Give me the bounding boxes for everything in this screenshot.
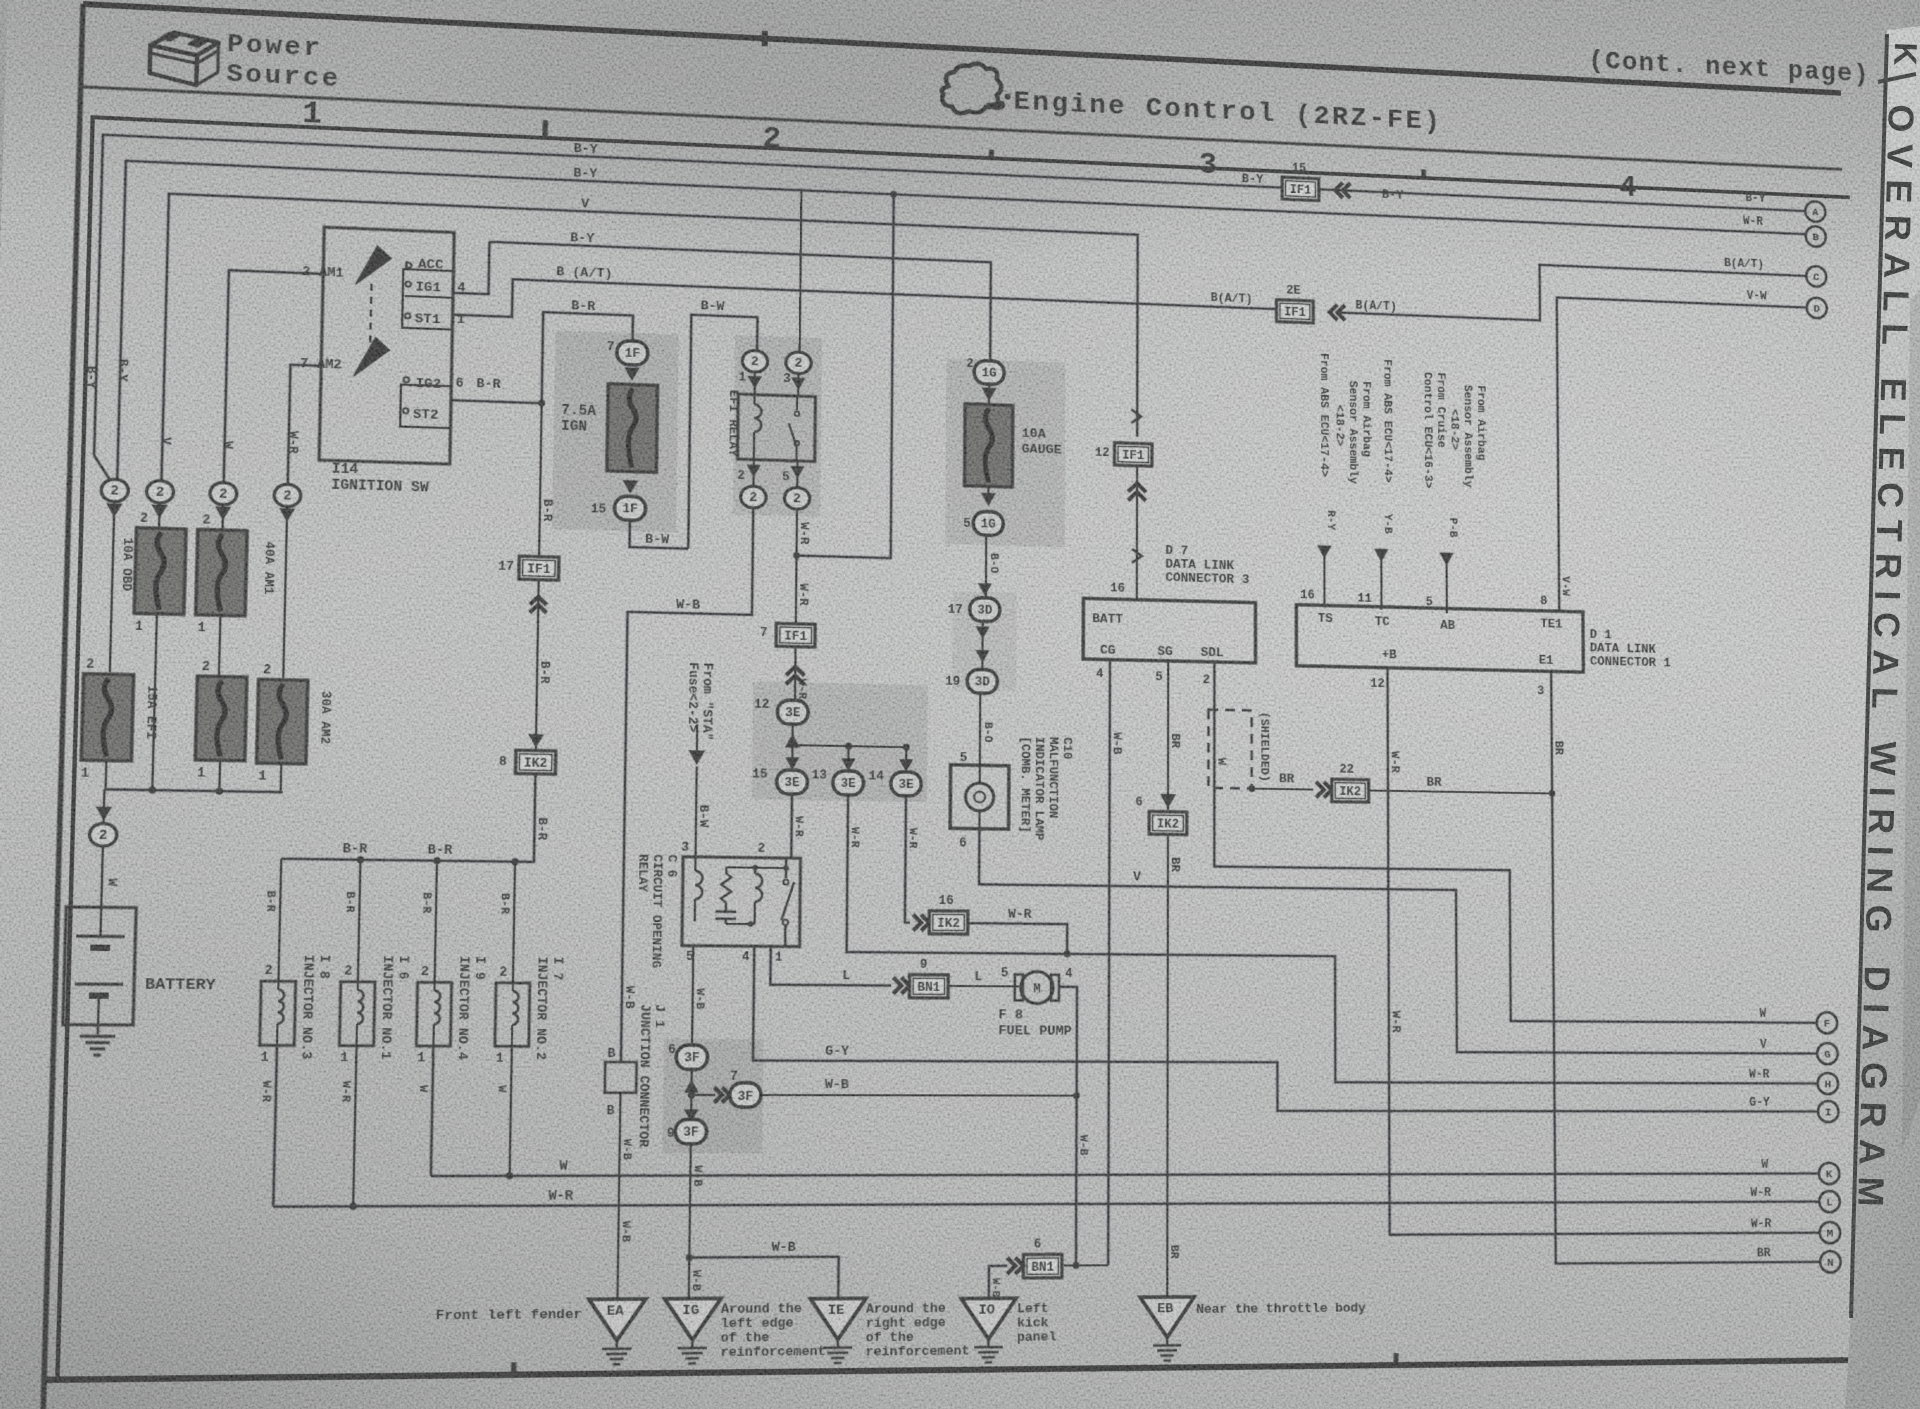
wire 3E15 to C6 pin2	[790, 794, 793, 858]
junction dot IG-IE branch	[686, 1254, 693, 1261]
3E bus	[792, 745, 908, 747]
arrow From STA down	[696, 724, 699, 754]
connector box 2E IF1	[1277, 300, 1314, 323]
connector circle 2 EFI pin5	[784, 487, 810, 509]
arrow fuse to 1G bottom	[987, 486, 989, 500]
connector oval 1F bottom	[614, 496, 645, 521]
circle A	[1805, 201, 1825, 222]
wire B-R from IG2	[451, 309, 633, 407]
chevrons below IF1-17	[536, 580, 539, 751]
fuse 40A AM1	[196, 529, 247, 616]
wire 3D19 to C10	[979, 693, 982, 765]
highlight panel EFI relay pins	[733, 335, 822, 517]
circle N	[1820, 1251, 1841, 1273]
chevron to 3F7	[691, 1094, 715, 1096]
photo shadow blotch top	[363, 0, 1232, 300]
connector box 6 IK2	[1149, 811, 1187, 834]
wire AB riser	[1445, 561, 1447, 613]
injector I 9 INJECTOR NO.4	[416, 982, 451, 1046]
wire I8 W-R down	[273, 1045, 277, 1206]
arrow into IK2-6	[1160, 794, 1176, 808]
connector oval 1G bottom	[973, 511, 1003, 535]
wire SDL W down and right	[1214, 662, 1816, 1023]
wire EFI pin3 riser to W-R line	[800, 190, 802, 351]
wire 1G to 3D17	[985, 535, 988, 598]
arrow below 3E12	[785, 734, 800, 748]
W-R bus to L	[273, 1202, 1819, 1207]
arrow to 3E13	[847, 746, 849, 769]
chevrons into BN1-6	[1007, 1258, 1023, 1274]
arrow pin1	[748, 376, 762, 389]
wire B-Y bus 2 / W-R line (to B)	[117, 161, 1810, 528]
wire B-Y gauge feed	[488, 242, 991, 360]
connector oval 3E 13	[833, 771, 864, 795]
connector box 7 IF1	[776, 623, 815, 647]
wire B-R to injector bus	[281, 770, 535, 862]
wire AM1 to ALT	[219, 615, 221, 676]
bottom border tick left	[511, 1362, 516, 1374]
ignition switch contact box IG1/ST1	[405, 261, 454, 298]
connector oval 3D 17	[970, 597, 1000, 621]
wire B(A/T) to C	[1336, 256, 1807, 330]
connector oval 3E 15	[777, 770, 808, 794]
junction dots injector bus	[357, 856, 364, 863]
junction dot W-B pump return	[1073, 1092, 1080, 1099]
arrow fuse to 1F bottom	[623, 480, 639, 494]
connector circle 2 EFI pin1	[742, 350, 768, 372]
wire EFI pin5 down to junction	[795, 510, 798, 555]
connector oval 1G top	[974, 360, 1004, 384]
wire B-W upper link	[688, 315, 757, 551]
connector oval 3D 19	[967, 669, 997, 693]
arrow below 3F6	[690, 1069, 693, 1131]
connector box 15 IF1	[1282, 177, 1319, 200]
wire TE1 riser to D	[1557, 297, 1811, 617]
fuse 7.5A IGN	[607, 384, 658, 473]
wire junction to IF1-7	[795, 556, 798, 624]
fuse 80A ALT	[195, 676, 247, 761]
contact point dots ACC IG1 ST1 IG2 ST2	[406, 263, 412, 268]
wire I7 W down	[510, 1046, 512, 1176]
MIL lamp symbol	[965, 783, 993, 811]
wire drop injector INJECTOR NO.3	[278, 859, 281, 982]
wire pump pin4 W-B down	[1058, 987, 1077, 1266]
wire CG W-B down to bus	[1108, 660, 1110, 1266]
wire I6 W-R down	[353, 1046, 356, 1207]
ignition switch I14 box	[319, 227, 454, 464]
ignition switch contact box IG2/ST2	[400, 385, 451, 429]
engine icon (Engine Control)	[942, 62, 1002, 115]
arrow above 3F9	[684, 1109, 699, 1122]
wire stub IG1 pin4 riser	[453, 240, 489, 294]
W bus to K	[431, 1173, 1819, 1176]
injector I 6 INJECTOR NO.1	[339, 982, 375, 1046]
wire C6 pin1 L to BN1-9	[770, 946, 891, 985]
highlight panel 7.5A IGN	[552, 330, 679, 532]
sidebar left border line	[1851, 34, 1887, 1318]
wire SG BR down	[1167, 661, 1169, 810]
page frame bottom border	[44, 1360, 1860, 1380]
circle M	[1820, 1222, 1841, 1243]
wire c2 to 10A OBD	[158, 503, 161, 528]
arrow to 3E15	[791, 745, 793, 768]
arrow AB	[1439, 552, 1453, 565]
chevrons into BN1-9	[893, 978, 909, 994]
right page-curl shadow	[1902, 290, 1920, 1150]
wire B(A/T) bus	[453, 277, 1277, 345]
C6 circuit opening relay box	[682, 857, 801, 947]
wire c4 to 30A AM2	[283, 507, 287, 678]
connector circle 2 EFI pin2	[740, 486, 766, 508]
fuse 15A EFI	[81, 674, 133, 761]
page frame top border	[83, 4, 1841, 93]
ground IE	[810, 1298, 866, 1339]
arrow pin2	[746, 465, 760, 478]
wire ALT down to battery bus	[218, 760, 221, 791]
connector circle 2 (c5 battery)	[89, 823, 117, 846]
arrow below circle	[215, 506, 231, 520]
arrow to battery circle	[95, 806, 112, 820]
junction dot bus-OBD	[149, 787, 157, 794]
arrow 1F to fuse	[624, 367, 640, 381]
wire TS riser	[1323, 554, 1325, 605]
connector box 22 IK2	[1332, 779, 1369, 802]
wire I9 W down	[431, 1046, 433, 1176]
highlight panel 3D pair	[952, 591, 1017, 691]
fuel pump motor	[1015, 974, 1023, 1000]
wire c1 to 15A EFI	[110, 502, 115, 673]
wire drop injector INJECTOR NO.2	[513, 862, 515, 983]
circle K	[1819, 1163, 1840, 1184]
D1 data link connector 1 box	[1296, 605, 1583, 672]
wire C6 pin5 W-B down to 3F6	[692, 946, 693, 1045]
C6 switch contact	[781, 858, 794, 947]
circle B	[1806, 226, 1826, 247]
wire 3E14 down to IK2-16	[905, 796, 911, 923]
connector circle 2 (c3)	[210, 482, 237, 505]
connector circle 2 (c2)	[146, 480, 173, 503]
junction dot W-R bus	[349, 1203, 356, 1210]
connector oval 3F 9	[675, 1119, 707, 1144]
wire AM2 down to battery bus	[280, 763, 283, 792]
header separator line	[81, 87, 1842, 170]
wire diagonal B-Y join into c1	[93, 455, 113, 484]
ground EB	[1140, 1297, 1194, 1338]
connector box 12 IF1	[1114, 443, 1151, 466]
arrow into 3D17	[978, 583, 992, 596]
fuse 10A OBD	[134, 528, 186, 615]
wire V bus (to IF1-12/D7 BATT)	[161, 194, 1137, 509]
connector oval 1F top	[617, 341, 648, 366]
connector circle 2 (c4)	[274, 484, 301, 507]
arrow below circle	[106, 503, 123, 517]
wire W to AM1	[224, 270, 324, 484]
wire C6 pin4 G-Y down	[752, 946, 1818, 1111]
arrow below circle	[151, 504, 168, 518]
connector box 17 IF1	[519, 556, 559, 580]
wire E1 BR down to N	[1551, 671, 1820, 1263]
chevrons IF1-2E	[1330, 305, 1345, 321]
shielded dashed box	[1208, 710, 1251, 789]
C10 MIL box	[950, 765, 1009, 829]
connector box 6 BN1	[1023, 1254, 1062, 1277]
battery ground symbol	[97, 1025, 100, 1034]
AM2 switch lever	[354, 337, 390, 377]
connector oval 3E 12	[777, 700, 808, 724]
chevrons below IF1-7	[794, 647, 797, 701]
EFI relay box	[737, 394, 815, 461]
wire 1F to B-W corner	[630, 520, 689, 548]
chevrons IF1-15	[1335, 182, 1350, 198]
highlight panel 3F cluster	[662, 1039, 763, 1153]
wire 3F7 W-B right to pump return	[761, 1094, 1077, 1097]
chevrons into IK2-22	[1316, 782, 1332, 798]
junction dot W-R merge	[1064, 951, 1071, 958]
injector B-R bus	[281, 859, 534, 862]
arrow below circle	[279, 508, 295, 522]
wire B-R vertical to IF1-17	[539, 403, 542, 556]
wire B-Y bus 1 (to IF1-15 and A)	[94, 135, 1809, 508]
arrows between 3D	[981, 621, 983, 669]
connector circle 2 EFI pin3	[786, 352, 812, 374]
wire 3F9 W-B down to IG	[689, 1144, 691, 1299]
arrow 1G to fuse	[982, 387, 997, 401]
junction dot 3F	[688, 1091, 695, 1098]
connector circle 2 (c1)	[101, 479, 129, 502]
circle F	[1817, 1012, 1838, 1033]
C6 coil 1	[694, 857, 696, 871]
wire circle to battery	[101, 846, 103, 907]
circle D	[1807, 297, 1827, 318]
junction dot W-R	[890, 191, 897, 198]
battery bus	[104, 789, 282, 792]
wire IK2-6 BR down to EB	[1166, 834, 1169, 1297]
circle I	[1818, 1101, 1839, 1122]
highlight panel 10A GAUGE	[945, 358, 1065, 547]
arrow v-mark on BATT riser 1	[1131, 409, 1141, 423]
column tick 2-3	[989, 150, 994, 160]
wire drop injector INJECTOR NO.1	[358, 860, 361, 982]
wire W-B branch to IE	[689, 1257, 839, 1300]
ground IG	[664, 1298, 721, 1340]
bottom border tick right	[1393, 1353, 1398, 1365]
wire BN1-6 to IO ground	[989, 1266, 1007, 1299]
ground EA	[588, 1299, 645, 1341]
circle L	[1819, 1191, 1840, 1212]
switch link dashed	[370, 284, 371, 354]
wire W-B from EFI pin2 to J1	[621, 505, 753, 1062]
battery box	[63, 907, 136, 1025]
wire IK2-22 BR to E1 riser	[1369, 790, 1553, 793]
injector I 8 INJECTOR NO.3	[260, 981, 296, 1045]
highlight panel 3E cluster	[752, 682, 928, 803]
connector box 16 IK2	[929, 911, 968, 934]
junction dot BR-E1	[1549, 790, 1556, 797]
junction dots 3E bus	[845, 743, 852, 750]
connector oval 3F 7	[730, 1083, 761, 1107]
C6 coil 2	[754, 868, 756, 874]
connector oval 3E 14	[891, 772, 922, 796]
circle H	[1817, 1073, 1838, 1094]
page frame left border	[40, 4, 83, 1409]
ground IO	[961, 1298, 1016, 1339]
column tick 1-2	[543, 120, 548, 139]
arrow to 3E14	[905, 747, 907, 770]
junction dot W bus	[506, 1172, 513, 1179]
wire bus down to battery	[102, 789, 105, 822]
C6 internal bottom rail	[726, 923, 755, 925]
wire BN1-9 L to pump	[948, 985, 1019, 988]
wire +B W-R down to M	[1388, 668, 1820, 1235]
EFI relay switch contact	[788, 396, 797, 461]
junction connector J1 box	[605, 1062, 637, 1093]
connector oval 3F 6	[676, 1045, 707, 1070]
connector box 9 BN1	[909, 975, 948, 998]
wire W-R drop from line to junction	[797, 190, 894, 558]
wire IK2-16 W-R out	[968, 923, 1068, 954]
C6 internal top rail	[726, 866, 786, 869]
junction dot bus-ALT	[216, 788, 224, 795]
junction dot shield-BR	[1248, 785, 1255, 792]
column tick 3-4	[1421, 169, 1426, 178]
arrow v-mark on BATT riser 2	[1132, 549, 1142, 563]
arrow pin3	[791, 377, 805, 390]
arrow TS	[1317, 545, 1332, 558]
battery plates symbol	[76, 935, 124, 939]
top border tick	[762, 31, 768, 46]
arrow TC	[1374, 549, 1388, 562]
chevrons below IF1-12	[1136, 466, 1139, 600]
connector box 8 IK2	[516, 750, 556, 774]
wire TC riser	[1380, 558, 1382, 610]
C6 resistor	[721, 867, 732, 907]
arrow pin5	[790, 466, 804, 479]
wire J1 to EA ground	[617, 1093, 620, 1299]
fuse 10A GAUGE	[965, 404, 1013, 487]
AM1 switch lever	[356, 245, 391, 285]
wire C10 pin6 V to corner	[978, 829, 1817, 1054]
EFI relay coil	[753, 395, 755, 405]
circle C	[1806, 266, 1826, 287]
wire STA to C6 pin3	[696, 766, 697, 856]
battery icon (Power Source)	[149, 31, 218, 86]
fuse 30A AM2	[257, 679, 308, 764]
arrow into IK2-8	[528, 734, 544, 748]
wire c3 to 40A AM1	[221, 505, 224, 530]
wire drop injector INJECTOR NO.4	[435, 861, 437, 983]
wire W-B bus to BN1-6	[1064, 1264, 1108, 1266]
book edge sidebar background	[1845, 26, 1920, 1409]
circle G	[1817, 1043, 1838, 1064]
sidebar K separator line	[1878, 74, 1916, 82]
chevrons into IK2-16	[913, 915, 929, 931]
injector I 7 INJECTOR NO.2	[495, 983, 530, 1047]
junction dot B-R	[538, 400, 545, 407]
wire EFI down to battery bus	[104, 761, 107, 790]
D7 data link connector 3 box	[1083, 598, 1255, 662]
wire W-R to AM2	[288, 365, 321, 485]
wire BR shield to IK2-22	[1252, 789, 1314, 790]
wire OBD down to battery bus	[152, 614, 157, 790]
C6 capacitor	[715, 908, 736, 924]
wire 3E13 down and right (W-R to H)	[845, 795, 1817, 1084]
